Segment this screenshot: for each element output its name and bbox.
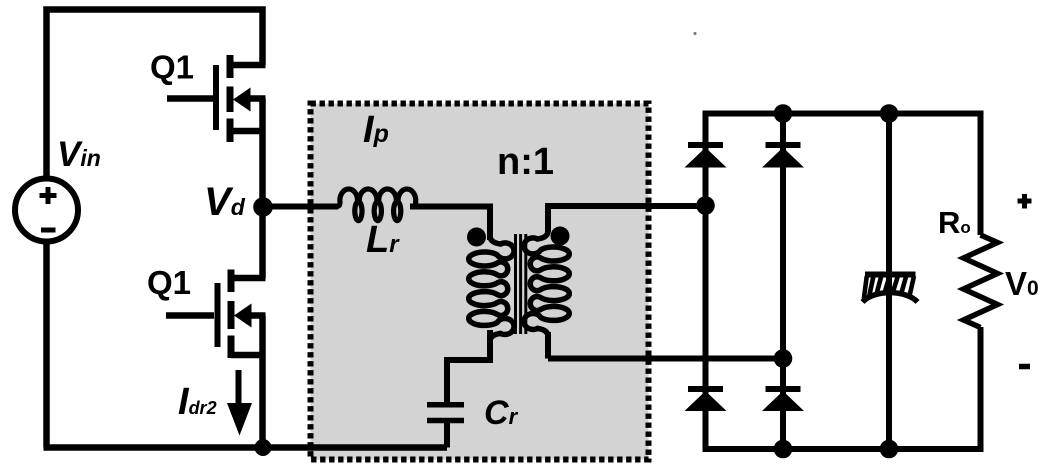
diode D2: [762, 145, 804, 168]
wire Q1 top source to Vd node: [259, 99, 266, 208]
svg-text:n:1: n:1: [497, 141, 554, 183]
node bottom rail junction: [255, 439, 272, 456]
transformer primary dot: [467, 228, 486, 247]
transistor Q1 top MOSFET: [167, 55, 266, 142]
transformer primary winding: [469, 236, 514, 341]
wire bridge left branch: [703, 111, 709, 453]
node secondary bottom junction: [774, 349, 793, 368]
node filter branch top: [880, 104, 899, 123]
node second branch top: [774, 104, 793, 123]
transistor Q1 bottom MOSFET: [166, 270, 266, 359]
label minus output: [1019, 364, 1030, 370]
wire top rail from Vin+ to Q1 drain: [47, 10, 263, 178]
transformer secondary winding: [524, 231, 569, 336]
source Vin: [15, 179, 78, 242]
inductor Lr: [336, 189, 420, 221]
svg-text:Q1: Q1: [147, 264, 191, 301]
wire bridge top rail: [706, 111, 981, 117]
wire output branch bottom: [978, 327, 984, 452]
node Vd: [253, 197, 273, 217]
wire secondary bottom to bridge: [548, 332, 783, 359]
node secondary top junction: [696, 196, 715, 215]
transformer secondary dot: [551, 227, 570, 246]
wire bridge bottom rail: [706, 446, 981, 452]
wire transformer primary bottom to Cr: [447, 330, 490, 402]
diode D1: [685, 145, 727, 168]
node filter branch bottom: [880, 440, 899, 459]
wire Cr bottom lead: [444, 420, 450, 448]
diode D3: [685, 389, 727, 411]
wire Vin- to bottom rail: [43, 240, 50, 448]
capacitor output filter: [863, 275, 918, 303]
diode D4: [762, 389, 804, 411]
node second branch bottom: [774, 440, 793, 459]
wire filter capacitor branch: [886, 111, 892, 453]
wire Vd to inductor: [263, 204, 338, 210]
resonant tank dashed box: [311, 104, 649, 460]
transformer core: [516, 234, 526, 334]
wire Vd to Q1 bottom drain: [259, 207, 266, 278]
capacitor Cr: [427, 405, 464, 421]
wire bottom-left rail: [44, 444, 448, 451]
artifact speck: [693, 32, 696, 35]
arrow Idr2: [227, 370, 252, 436]
wire output branch top: [978, 111, 984, 236]
svg-text:Q1: Q1: [150, 49, 194, 86]
label plus output: [1018, 194, 1032, 209]
wire bridge second branch: [780, 111, 786, 453]
wire secondary top to bridge: [548, 206, 706, 232]
wire Q1 bottom source to bottom rail: [259, 316, 266, 448]
wire inductor to transformer primary: [410, 207, 490, 241]
resistor Ro: [964, 235, 998, 328]
